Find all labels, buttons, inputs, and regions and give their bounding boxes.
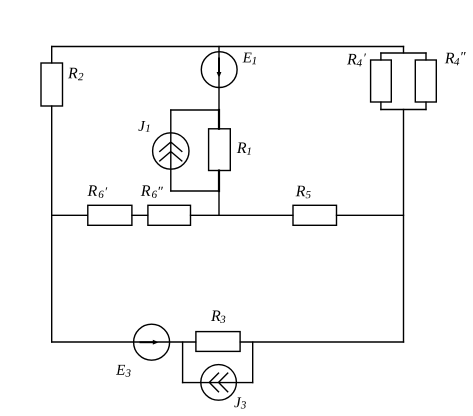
wire R1 to middle bus [218,191,220,215]
current source J3 chevron left [209,373,218,392]
wire middle bus segment 3 [191,214,294,216]
current source J3 chevron right [219,373,228,392]
label E3 [116,365,131,377]
wire middle bus segment 4 [337,214,404,216]
label R4'' [445,52,466,65]
wire J3 loop bottom [183,382,253,384]
wire R4'' top stub [425,53,427,60]
current source J1 chevron lower [160,152,182,161]
label J1 [138,121,149,132]
label R5 [296,186,311,199]
wire right vertical upper [403,47,405,54]
resistor R4'' [415,60,436,102]
wire R1 top segment [218,110,220,129]
source E1 circle [201,52,237,88]
resistor R3 [196,332,240,352]
label R6'' [141,185,163,198]
wire R1 bottom segment [218,171,220,192]
wire J3 loop right vertical [252,342,254,383]
wire middle bus segment 2 [132,214,148,216]
current source J3 circle [201,365,237,401]
wire R4 bottom connector [381,109,426,111]
label R6' [87,185,107,198]
label R4' [347,54,366,67]
label R2 [68,68,83,80]
wire parallel box bottom [171,190,219,192]
wire right vertical lower [403,110,405,343]
resistor R6' [88,205,132,225]
wire R4 top connector [381,52,426,54]
wire middle bus segment 1 [52,214,88,216]
wire bottom bus left [52,341,196,343]
wire R4' bottom stub [380,102,382,110]
wire left vertical upper [51,47,53,64]
wire R4' top stub [380,53,382,60]
source E3 arrow [141,341,154,343]
resistor R1 [209,129,231,171]
wire J3 loop left vertical [182,342,184,383]
resistor R2 [41,63,63,106]
resistor R4' [371,60,392,102]
label R3 [211,311,225,324]
wire bottom bus right [240,341,403,343]
source E3 circle [134,324,170,360]
source E1 arrow [218,59,220,73]
label R1 [237,143,251,155]
current source J1 circle [153,133,189,169]
resistor R5 [293,205,337,225]
wire J1 branch vertical [170,110,172,191]
resistor R6'' [148,205,191,225]
wire parallel box top [171,109,219,111]
current source J1 chevron upper [160,142,182,151]
wire R4'' bottom stub [425,102,427,110]
label J3 [234,397,246,408]
wire left vertical lower [51,106,53,342]
wire top bus [52,46,404,48]
wire E1 branch vertical [218,47,220,111]
label E1 [243,53,256,65]
